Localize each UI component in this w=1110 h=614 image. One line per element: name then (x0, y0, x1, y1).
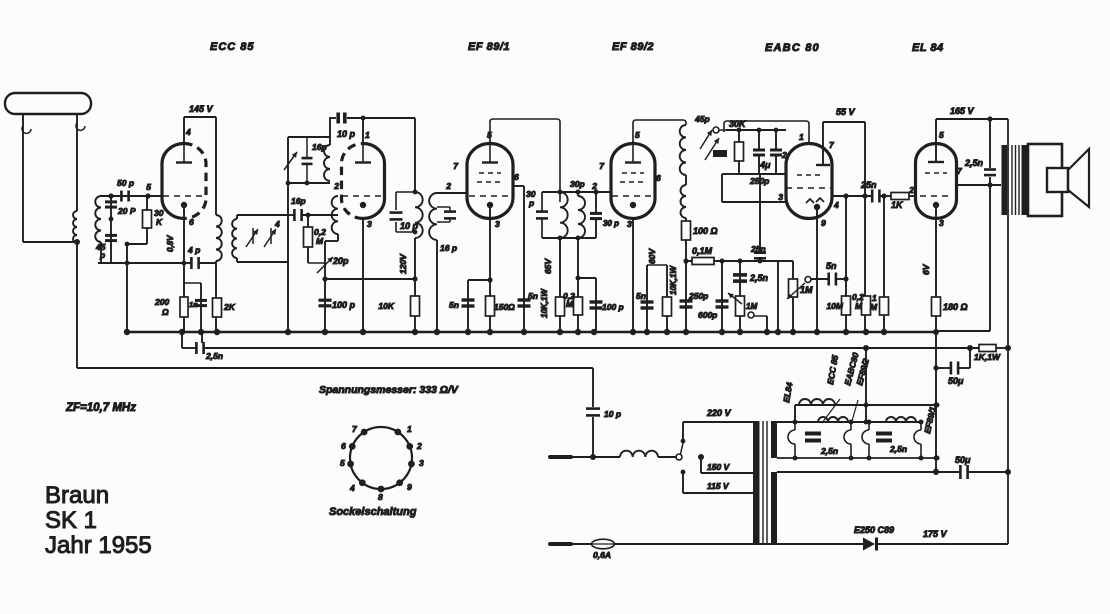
svg-text:50μ: 50μ (948, 376, 964, 386)
svg-text:175 V: 175 V (923, 529, 948, 539)
svg-text:EF 89/1: EF 89/1 (468, 41, 510, 53)
svg-text:50μ: 50μ (955, 455, 971, 465)
svg-text:2: 2 (445, 181, 451, 191)
svg-text:5: 5 (146, 182, 151, 192)
svg-text:10K: 10K (378, 301, 394, 311)
svg-text:65V: 65V (543, 258, 553, 274)
svg-text:3: 3 (495, 219, 500, 229)
svg-text:0,1M: 0,1M (692, 246, 713, 256)
svg-text:3: 3 (939, 218, 944, 228)
svg-text:EABC 80: EABC 80 (765, 42, 820, 54)
svg-text:ZF=10,7 MHz: ZF=10,7 MHz (65, 402, 136, 414)
svg-text:Jahr 1955: Jahr 1955 (45, 532, 152, 559)
svg-text:M: M (316, 236, 324, 246)
svg-text:5n: 5n (636, 291, 646, 301)
svg-text:2K: 2K (223, 302, 236, 312)
svg-text:10 p: 10 p (337, 129, 356, 139)
svg-text:4 p: 4 p (187, 245, 200, 255)
svg-text:5: 5 (939, 130, 944, 140)
svg-text:20p: 20p (332, 256, 349, 266)
svg-text:4: 4 (349, 483, 355, 493)
svg-text:30p: 30p (570, 179, 585, 189)
svg-text:55 V: 55 V (836, 107, 856, 117)
svg-text:M: M (566, 299, 574, 309)
svg-text:1K,1W: 1K,1W (974, 352, 1001, 362)
svg-text:100 Ω: 100 Ω (693, 226, 718, 236)
svg-text:2,5n: 2,5n (820, 446, 838, 456)
svg-text:60V: 60V (647, 248, 657, 264)
svg-text:145 V: 145 V (189, 104, 214, 114)
svg-text:30 p: 30 p (603, 219, 619, 228)
svg-text:220 V: 220 V (706, 408, 732, 418)
svg-text:25n: 25n (860, 180, 877, 190)
svg-text:5: 5 (340, 458, 345, 468)
svg-text:Braun: Braun (45, 482, 109, 509)
svg-text:6V: 6V (921, 263, 931, 275)
svg-text:100 p: 100 p (332, 300, 356, 310)
svg-text:5n: 5n (449, 300, 459, 310)
svg-text:1n: 1n (189, 300, 198, 309)
svg-text:1M: 1M (800, 285, 813, 295)
svg-text:2: 2 (908, 185, 914, 195)
svg-text:K: K (156, 217, 163, 227)
svg-text:4: 4 (833, 200, 839, 210)
svg-text:1: 1 (407, 424, 412, 434)
svg-text:4μ: 4μ (759, 160, 771, 170)
svg-text:Sockelschaltung: Sockelschaltung (329, 506, 417, 518)
svg-text:4: 4 (274, 219, 280, 229)
svg-text:180 Ω: 180 Ω (943, 302, 968, 312)
svg-text:3: 3 (419, 458, 424, 468)
svg-text:10K,1W: 10K,1W (540, 288, 549, 318)
svg-text:10 p: 10 p (400, 221, 419, 231)
svg-text:1: 1 (365, 130, 370, 140)
svg-text:1M: 1M (746, 302, 757, 311)
svg-text:3: 3 (778, 192, 783, 202)
svg-text:M: M (855, 301, 863, 311)
svg-text:M: M (870, 302, 878, 312)
svg-text:9: 9 (407, 482, 412, 492)
svg-text:16p: 16p (291, 196, 306, 206)
svg-text:2,5n: 2,5n (749, 273, 769, 283)
svg-text:5n: 5n (528, 291, 538, 301)
svg-text:150 V: 150 V (707, 462, 731, 472)
svg-text:ECC 85: ECC 85 (210, 41, 255, 53)
svg-text:5: 5 (487, 130, 492, 140)
svg-text:200: 200 (154, 297, 169, 307)
svg-text:50 p: 50 p (117, 178, 134, 188)
svg-text:16 p: 16 p (440, 243, 457, 253)
svg-text:2,5n: 2,5n (205, 351, 223, 361)
svg-text:0,6A: 0,6A (593, 550, 611, 560)
svg-text:2: 2 (416, 441, 422, 451)
svg-text:150Ω: 150Ω (494, 302, 515, 312)
svg-text:Ω: Ω (161, 307, 169, 317)
svg-text:2: 2 (591, 181, 597, 191)
svg-text:6: 6 (189, 217, 194, 227)
svg-text:120V: 120V (398, 253, 408, 274)
svg-text:2,5n: 2,5n (889, 444, 907, 454)
svg-text:Spannungsmesser: 333 Ω/V: Spannungsmesser: 333 Ω/V (319, 384, 459, 396)
svg-text:25n: 25n (750, 244, 766, 254)
svg-text:6: 6 (341, 441, 346, 451)
svg-text:5n: 5n (826, 261, 837, 271)
svg-text:1: 1 (799, 132, 804, 142)
svg-text:0,8V: 0,8V (166, 235, 175, 252)
svg-text:3: 3 (367, 219, 372, 229)
svg-text:EF 89/2: EF 89/2 (612, 41, 654, 53)
svg-text:100 p: 100 p (602, 302, 624, 312)
svg-text:600p: 600p (698, 310, 717, 320)
svg-text:6: 6 (514, 172, 519, 182)
svg-text:1K: 1K (891, 200, 904, 210)
svg-text:SK 1: SK 1 (45, 507, 97, 534)
svg-text:115 V: 115 V (707, 481, 730, 491)
svg-text:20 P: 20 P (117, 206, 136, 216)
svg-text:10K,1W: 10K,1W (669, 265, 678, 295)
svg-text:EL 84: EL 84 (912, 42, 944, 54)
svg-text:250p: 250p (688, 291, 708, 301)
svg-text:2: 2 (333, 181, 339, 191)
svg-text:3: 3 (627, 219, 632, 229)
svg-text:E250 C89: E250 C89 (854, 525, 894, 535)
svg-text:10 p: 10 p (604, 409, 621, 419)
svg-text:165 V: 165 V (950, 106, 975, 116)
svg-text:10M: 10M (826, 301, 843, 311)
svg-text:2,5n: 2,5n (964, 158, 984, 168)
svg-text:p: p (99, 250, 105, 260)
svg-text:45p: 45p (694, 114, 710, 124)
svg-text:16p: 16p (312, 142, 327, 152)
svg-text:8: 8 (378, 492, 383, 502)
svg-text:p: p (528, 198, 534, 208)
svg-text:6: 6 (656, 173, 661, 183)
svg-text:9: 9 (821, 218, 826, 228)
svg-text:5: 5 (635, 130, 640, 140)
svg-text:4: 4 (185, 127, 191, 137)
